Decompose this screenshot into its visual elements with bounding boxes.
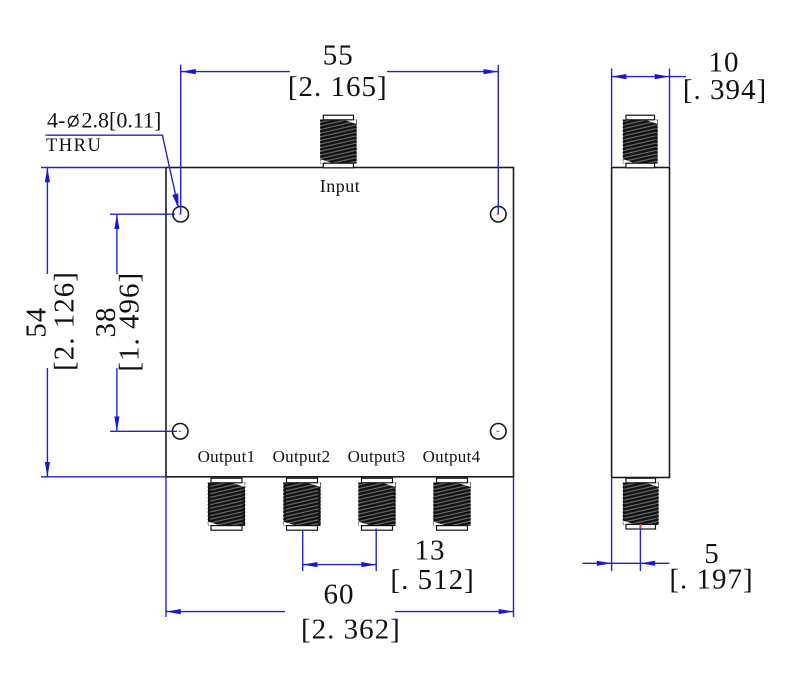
dimension 10 side view bbox=[612, 47, 768, 167]
svg-text:Output3: Output3 bbox=[348, 447, 406, 466]
label Output3 bbox=[348, 447, 406, 466]
svg-text:55: 55 bbox=[323, 40, 354, 72]
label Output1 bbox=[198, 447, 256, 466]
svg-text:13: 13 bbox=[415, 534, 446, 566]
label Input bbox=[320, 176, 361, 196]
svg-text:[2. 126]: [2. 126] bbox=[49, 271, 81, 371]
input connector thread bbox=[320, 115, 356, 168]
svg-text:2.8[0.11]: 2.8[0.11] bbox=[82, 108, 162, 133]
output3 connector thread bbox=[359, 478, 396, 530]
svg-text:[. 394]: [. 394] bbox=[683, 74, 767, 106]
dimension 38 left inner bbox=[90, 214, 177, 431]
side view body bbox=[612, 168, 670, 478]
dimension 55 top bbox=[181, 40, 499, 214]
label Output2 bbox=[273, 447, 331, 466]
svg-text:[2. 165]: [2. 165] bbox=[288, 71, 388, 103]
output4 connector thread bbox=[434, 478, 471, 530]
svg-text:[2. 362]: [2. 362] bbox=[301, 613, 401, 645]
output2 connector thread bbox=[284, 478, 321, 530]
dimension 13 outputs bbox=[303, 529, 475, 597]
svg-text:THRU: THRU bbox=[46, 136, 102, 156]
output1 connector thread bbox=[208, 478, 245, 530]
front view body bbox=[166, 168, 514, 477]
hole top-left bbox=[173, 206, 189, 222]
svg-text:4-: 4- bbox=[47, 108, 65, 133]
hole top-right bbox=[491, 206, 507, 222]
svg-text:Output4: Output4 bbox=[423, 447, 481, 466]
svg-text:Output2: Output2 bbox=[273, 447, 331, 466]
hole bottom-right bbox=[491, 424, 507, 440]
side view bottom thread bbox=[623, 478, 659, 529]
svg-text:[1. 496]: [1. 496] bbox=[114, 272, 146, 372]
svg-text:Input: Input bbox=[320, 176, 361, 196]
side view top thread bbox=[623, 115, 658, 168]
leader note 4-dia2.8 THRU bbox=[46, 108, 179, 209]
dimension 5 side bottom bbox=[583, 478, 754, 595]
svg-text:[. 512]: [. 512] bbox=[390, 564, 474, 596]
dimension 54 left bbox=[21, 168, 166, 477]
svg-text:Output1: Output1 bbox=[198, 447, 256, 466]
dimension 60 bottom bbox=[166, 477, 514, 645]
label Output4 bbox=[423, 447, 481, 466]
svg-text:[. 197]: [. 197] bbox=[669, 564, 753, 596]
hole bottom-left bbox=[172, 424, 188, 440]
svg-text:60: 60 bbox=[324, 578, 355, 610]
